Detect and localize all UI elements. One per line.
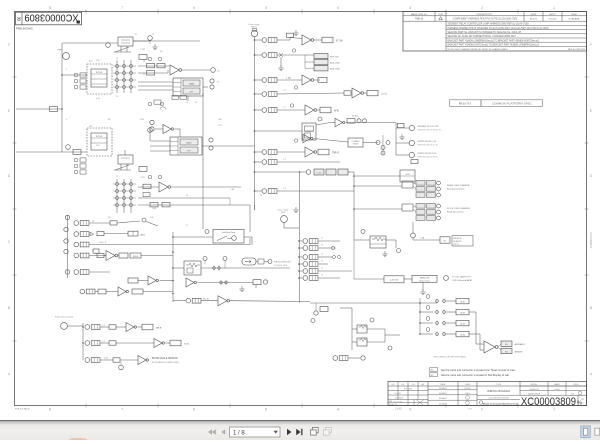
inline component	[139, 167, 147, 172]
node ref 18	[209, 138, 213, 150]
svg-text:CHKD: CHKD	[571, 14, 578, 16]
wire	[348, 171, 354, 173]
svg-text:SURFACE: SURFACE	[395, 396, 404, 399]
motor symbol	[242, 258, 264, 265]
previous-view button	[310, 428, 318, 436]
fuse F10	[303, 239, 318, 244]
wire	[354, 175, 400, 177]
svg-text:3: 3	[409, 408, 411, 412]
wire	[354, 208, 402, 210]
svg-text:MS-B: MS-B	[140, 234, 146, 236]
svg-text:: Electric parts and connector: : Electric parts and connector is locate…	[440, 373, 510, 377]
op-amp A13	[218, 296, 230, 306]
row C components	[64, 238, 250, 247]
svg-text:(OPT.): (OPT.)	[453, 244, 459, 246]
node ref 51	[444, 276, 449, 281]
wire	[249, 205, 251, 232]
wire	[138, 81, 173, 83]
ground	[278, 65, 283, 71]
wire	[469, 311, 476, 313]
svg-text:PWR: PWR	[57, 50, 63, 52]
svg-text:30: 30	[186, 102, 188, 104]
wire	[143, 291, 173, 293]
wire	[346, 122, 396, 124]
svg-text:M-3LB: M-3LB	[133, 256, 139, 258]
svg-text:8: 8	[49, 408, 51, 412]
node bus C	[353, 172, 355, 218]
wire	[62, 151, 87, 153]
svg-text:4: 4	[337, 6, 339, 10]
svg-text:DATE: DATE	[531, 13, 537, 16]
svg-text:ACIL.DB2: ACIL.DB2	[330, 62, 341, 65]
fuse F1	[262, 38, 277, 43]
node ref column ch2	[74, 158, 86, 174]
fuse F6	[262, 150, 277, 155]
value label	[411, 160, 418, 164]
svg-text:2: 2	[481, 6, 483, 10]
wire	[299, 277, 303, 279]
node ref 11	[106, 43, 111, 48]
value label	[318, 77, 327, 82]
fuse F5	[262, 108, 277, 113]
wire	[101, 342, 110, 344]
svg-text:1.4: 1.4	[283, 188, 286, 190]
value label	[143, 184, 151, 188]
toolbar prev-page button (disabled)	[221, 429, 225, 435]
connector pinout box P1	[173, 78, 203, 96]
svg-text:Cold Start Relay: Cold Start Relay	[222, 231, 236, 234]
svg-text:27: 27	[116, 176, 118, 178]
node ref 52	[370, 318, 374, 322]
node ref 43	[223, 257, 227, 269]
svg-text:6: 6	[193, 6, 195, 10]
svg-text:81/08/02: 81/08/02	[439, 403, 448, 405]
wire	[255, 161, 263, 163]
svg-text:E: E	[8, 109, 10, 113]
svg-text:COM: COM	[317, 172, 322, 174]
wire	[101, 326, 110, 328]
node ref W3	[409, 152, 438, 158]
svg-text:F: F	[8, 43, 10, 47]
taskbar hint	[69, 438, 87, 441]
node ref 54	[361, 356, 365, 360]
wire	[133, 40, 200, 42]
svg-text:S.SUZU: S.SUZU	[548, 19, 556, 21]
svg-text:0.85L: 0.85L	[140, 119, 145, 121]
label	[447, 184, 470, 191]
drawing number box (rotated)	[16, 12, 82, 31]
arc symbol	[160, 107, 166, 110]
svg-text:RELAY: RELAY	[353, 143, 359, 146]
node ref 41	[205, 230, 209, 234]
svg-text:34: 34	[92, 221, 94, 223]
svg-text:30: 30	[321, 245, 323, 247]
inline component	[50, 107, 58, 112]
svg-text:FLOOD LAMP(OPT.): FLOOD LAMP(OPT.)	[452, 276, 472, 279]
value label	[147, 63, 155, 67]
wire	[412, 238, 414, 240]
svg-text:AM ANT: AM ANT	[515, 350, 524, 353]
svg-text:81/08/02: 81/08/02	[439, 393, 448, 395]
svg-text:M a r k I: M a r k I	[459, 102, 471, 106]
wire	[138, 326, 143, 328]
ground	[399, 134, 404, 140]
svg-text:BRACKET PART 41NEW LOWERING(V: BRACKET PART 41NEW LOWERING(Ver.a)1 TO B…	[448, 39, 540, 42]
svg-text:0.003: 0.003	[554, 389, 560, 391]
svg-text:11: 11	[135, 34, 137, 36]
svg-text:K.SATO: K.SATO	[395, 392, 402, 395]
wire	[173, 300, 186, 302]
svg-text:81/07/1: 81/07/1	[530, 19, 538, 21]
svg-text:RP1: RP1	[89, 61, 93, 63]
next-page button	[287, 429, 292, 435]
node ref 13	[148, 128, 153, 133]
wire	[354, 185, 402, 187]
svg-text:8: 8	[49, 6, 51, 10]
wire	[299, 256, 303, 258]
svg-text:Rearward camera: Rearward camera	[447, 188, 465, 191]
svg-text:DWG: DWG	[574, 384, 579, 386]
row B components	[64, 227, 146, 236]
svg-text:7: 7	[254, 89, 255, 91]
value label	[109, 325, 116, 329]
misc labels ch1	[89, 34, 164, 128]
svg-text:COMMON PLATFORM SPEC: COMMON PLATFORM SPEC	[492, 102, 533, 106]
node ref 17	[210, 79, 220, 89]
svg-text:TNK 1.8: TNK 1.8	[99, 242, 106, 244]
fuse F11	[303, 246, 318, 251]
fuse F7	[262, 160, 277, 165]
relay K1	[114, 37, 133, 52]
svg-text:XC00003809: XC00003809	[589, 232, 593, 249]
op-amp A9	[305, 147, 317, 157]
wire	[314, 79, 320, 81]
connector B2	[278, 210, 299, 229]
svg-text:7: 7	[254, 76, 255, 78]
wire	[255, 93, 263, 95]
svg-text:GL/R: GL/R	[460, 334, 465, 336]
wire	[173, 267, 184, 269]
svg-text:Hitachi Construction Machinery: Hitachi Construction Machinery Group	[483, 402, 519, 405]
svg-text:XC00003809: XC00003809	[25, 12, 79, 23]
label	[452, 276, 472, 283]
node ref 21	[318, 117, 322, 121]
op-amp A14	[484, 341, 498, 353]
svg-text:X2: X2	[260, 195, 262, 197]
op-amp A17	[154, 339, 164, 348]
inline component	[139, 55, 147, 60]
value label	[132, 289, 143, 294]
wire	[299, 247, 303, 249]
revision table	[403, 12, 587, 52]
fuse F2	[262, 53, 277, 58]
svg-text:1: 1	[553, 6, 555, 10]
node ref 53	[388, 346, 392, 350]
svg-text:4: 4	[337, 408, 339, 412]
label	[447, 207, 470, 214]
op-amp A2	[159, 182, 171, 192]
svg-text:SATELLITE: SATELLITE	[420, 277, 431, 280]
svg-text:30: 30	[321, 268, 323, 270]
svg-text:TITLE: TITLE	[496, 384, 502, 386]
svg-text:KD: KD	[505, 344, 508, 346]
node ref W2	[409, 140, 438, 146]
value label	[147, 71, 155, 75]
svg-text:COMPONENT HARNESS ROUTING NOTE: COMPONENT HARNESS ROUTING NOTE (1)-(2)-(…	[453, 18, 518, 21]
relay K6	[370, 236, 386, 248]
svg-text:S.SUZUKI: S.SUZUKI	[404, 389, 413, 391]
svg-text:HARNESS CONNECTOR IS CHANGED (: HARNESS CONNECTOR IS CHANGED (5)-(2)(7)-…	[448, 27, 549, 30]
wire	[150, 140, 170, 142]
wire	[255, 190, 263, 192]
label box mirror heater	[452, 236, 473, 247]
inline component	[98, 289, 106, 294]
node ref 24	[376, 141, 390, 156]
svg-text:MIRROR: MIRROR	[453, 238, 462, 240]
node bus L1	[61, 43, 63, 152]
ground	[293, 30, 298, 36]
op-amp A4	[302, 75, 314, 85]
continuous layout button	[595, 428, 600, 435]
wire	[202, 93, 204, 229]
value label	[318, 149, 329, 155]
input box	[128, 278, 148, 283]
svg-text:GL B: GL B	[184, 343, 189, 345]
node bus G	[419, 298, 421, 334]
load box bank	[314, 54, 341, 71]
svg-text:J7: J7	[186, 225, 188, 227]
svg-text:(Data Trans): (Data Trans)	[419, 279, 430, 282]
row A components	[65, 215, 158, 226]
monitor box	[400, 170, 415, 182]
diode array D1	[113, 60, 136, 93]
svg-text:SATO: SATO	[465, 392, 470, 395]
svg-text:WIPE BLOW-UP Wash SL: WIPE BLOW-UP Wash SL	[418, 129, 442, 131]
last-page button	[296, 429, 302, 435]
fuse F16	[333, 356, 348, 361]
wire	[316, 123, 330, 126]
svg-text:HEATER: HEATER	[453, 240, 462, 243]
svg-text:ROOF VIEW CAMERA: ROOF VIEW CAMERA	[447, 207, 470, 210]
svg-text:W-B: W-B	[334, 109, 339, 112]
wire	[317, 109, 320, 111]
camera unit 1	[402, 181, 440, 198]
connector pinout box P2	[170, 137, 202, 155]
node bus L	[67, 215, 69, 278]
wire	[255, 151, 263, 153]
fuse F14	[303, 269, 318, 274]
svg-text:REF No.:8977033: REF No.:8977033	[568, 49, 586, 51]
svg-text:30: 30	[321, 238, 323, 240]
ground	[152, 44, 157, 50]
value label	[109, 341, 116, 345]
node ref 32	[361, 230, 365, 234]
misc refs right rows	[321, 238, 323, 277]
svg-text:0.5G: 0.5G	[96, 98, 101, 100]
svg-text:3: 3	[409, 6, 411, 10]
wire	[367, 328, 385, 330]
wire	[353, 240, 355, 279]
wire	[138, 204, 250, 206]
svg-text:CLEANER: CLEANER	[352, 140, 361, 143]
ground	[382, 251, 387, 257]
fuse F20	[85, 358, 100, 363]
value label	[150, 203, 158, 207]
svg-text:1.4: 1.4	[283, 107, 286, 109]
svg-text:N.TAKAHA: N.TAKAHA	[569, 18, 580, 21]
svg-text:SCALE 1/1: SCALE 1/1	[389, 403, 397, 406]
next-view button (disabled)	[323, 428, 331, 436]
svg-text:1 / 8: 1 / 8	[233, 430, 245, 436]
svg-text:MODEL: MODEL	[531, 384, 538, 386]
svg-text:30A SLOW BLOW: 30A SLOW BLOW	[274, 261, 290, 264]
svg-text:(SIG): (SIG)	[281, 212, 286, 214]
value label	[113, 358, 120, 362]
wire	[255, 39, 263, 41]
page number combo box	[230, 427, 281, 437]
node ref 44	[268, 260, 272, 264]
svg-text:AM RADIO: AM RADIO	[515, 343, 526, 346]
ground	[293, 207, 298, 213]
wire	[16, 108, 62, 110]
wire	[363, 142, 378, 144]
wire	[255, 54, 263, 56]
wire	[124, 150, 126, 155]
stub labels below pinout P1	[172, 96, 187, 100]
load box GL	[440, 237, 450, 243]
svg-text:WASHER MOTOR FRT: WASHER MOTOR FRT	[418, 125, 440, 128]
svg-text:1.4: 1.4	[283, 159, 286, 161]
svg-text:TNB-13: TNB-13	[415, 18, 424, 21]
svg-text:7: 7	[121, 408, 123, 412]
diode array D2	[113, 179, 136, 213]
lamp row GL/R 2	[420, 306, 469, 315]
sheet annotations	[15, 408, 473, 411]
svg-text:APPD: APPD	[550, 13, 556, 16]
svg-text:EPA-8/3-9A4-B: EPA-8/3-9A4-B	[15, 408, 30, 411]
svg-text:81/08/02: 81/08/02	[439, 398, 448, 400]
svg-text:1.4A: 1.4A	[420, 237, 425, 240]
svg-text:W 36.5: W 36.5	[352, 116, 359, 118]
terminal blocks	[314, 169, 348, 175]
scatter labels left block	[66, 49, 262, 227]
svg-text:FUSIBLE LINK: FUSIBLE LINK	[274, 265, 288, 267]
relay K5	[302, 123, 316, 140]
svg-text:28: 28	[143, 61, 145, 63]
svg-text:29: 29	[143, 74, 145, 76]
svg-text:XC00003809: XC00003809	[521, 396, 576, 408]
value label	[320, 107, 331, 113]
svg-text:4: 4	[66, 119, 67, 121]
svg-text:B: B	[590, 306, 592, 310]
connector A1	[57, 50, 69, 60]
node ref 23	[357, 119, 361, 123]
fuse F13	[303, 262, 318, 267]
op-amp A1	[170, 65, 182, 75]
svg-text:: Electric parts and connector: : Electric parts and connector is locate…	[440, 368, 516, 372]
wire	[299, 263, 303, 265]
svg-text:5: 5	[265, 6, 267, 10]
value label	[287, 33, 294, 37]
svg-text:(BATT): (BATT)	[251, 25, 257, 28]
svg-text:7: 7	[254, 158, 255, 160]
svg-text:WIPE BLOW-UP (R.H): WIPE BLOW-UP (R.H)	[418, 156, 439, 158]
svg-text:C/W Collision A-ARM: C/W Collision A-ARM	[452, 279, 472, 282]
node ref 22	[306, 170, 311, 175]
svg-text:F: F	[590, 43, 592, 47]
op-amp A18	[138, 356, 148, 365]
svg-text:26: 26	[116, 96, 118, 98]
lamp row GL/R 3	[420, 317, 469, 326]
svg-text:81/08/02: 81/08/02	[439, 388, 448, 390]
svg-text:MARK DWG No.: MARK DWG No.	[411, 13, 428, 16]
svg-text:30: 30	[321, 261, 323, 263]
relay K9	[357, 338, 368, 346]
wire	[315, 303, 317, 310]
wire	[256, 261, 258, 263]
fuse F9	[186, 298, 201, 303]
svg-text:2: 2	[481, 408, 483, 412]
svg-text:DWG FORM: DWG FORM	[393, 401, 403, 403]
wire	[314, 39, 322, 41]
wire	[254, 205, 256, 210]
relay RP-DB K2 (dashed enclosure)	[87, 64, 112, 94]
misc labels ch2	[116, 175, 162, 210]
svg-text:7: 7	[254, 34, 255, 36]
wire	[353, 218, 355, 240]
value label	[398, 123, 405, 127]
wire	[62, 42, 118, 44]
note 2	[430, 373, 510, 377]
svg-text:TNF-D: TNF-D	[332, 151, 339, 154]
svg-text:1: 1	[553, 408, 555, 412]
fuse F3	[262, 78, 277, 83]
svg-text:RP-DB: RP-DB	[96, 136, 103, 138]
svg-text:DESCRIPTION: DESCRIPTION	[477, 14, 492, 16]
inline component	[320, 307, 328, 312]
svg-text:MAT: MAT	[389, 400, 392, 403]
wire	[101, 359, 114, 361]
diode pair	[220, 280, 228, 285]
camera unit 2	[402, 204, 440, 221]
node ref W1	[409, 125, 442, 131]
wire	[171, 186, 241, 188]
relay K4	[114, 155, 133, 170]
wire	[255, 171, 307, 173]
svg-text:BOOM ANGLE SENSOR: BOOM ANGLE SENSOR	[152, 357, 178, 360]
row E components	[65, 270, 110, 275]
node bus F	[82, 323, 84, 360]
wire	[138, 72, 168, 74]
relay K8	[357, 325, 368, 333]
node ref 33	[397, 249, 401, 253]
svg-text:THIS CONNECTOR USED WITH RADIO: THIS CONNECTOR USED WITH RADIO	[433, 356, 467, 359]
output boxes KD	[498, 341, 512, 354]
fuse F19	[85, 341, 100, 346]
connector B1	[249, 24, 260, 40]
wire	[173, 236, 213, 238]
op-amp A10	[186, 278, 196, 287]
svg-text:4-18 LNK: 4-18 LNK	[390, 279, 399, 281]
node ref 45	[263, 280, 267, 284]
wire	[160, 280, 174, 282]
svg-text:1.3A: 1.3A	[286, 77, 291, 80]
svg-text:KD: KD	[505, 351, 508, 353]
svg-text:KEY SW: KEY SW	[330, 57, 339, 59]
svg-text:SUZUKI: SUZUKI	[464, 388, 471, 390]
svg-text:1:1 A3: 1:1 A3	[395, 408, 402, 411]
svg-text:1.25B: 1.25B	[140, 177, 146, 179]
